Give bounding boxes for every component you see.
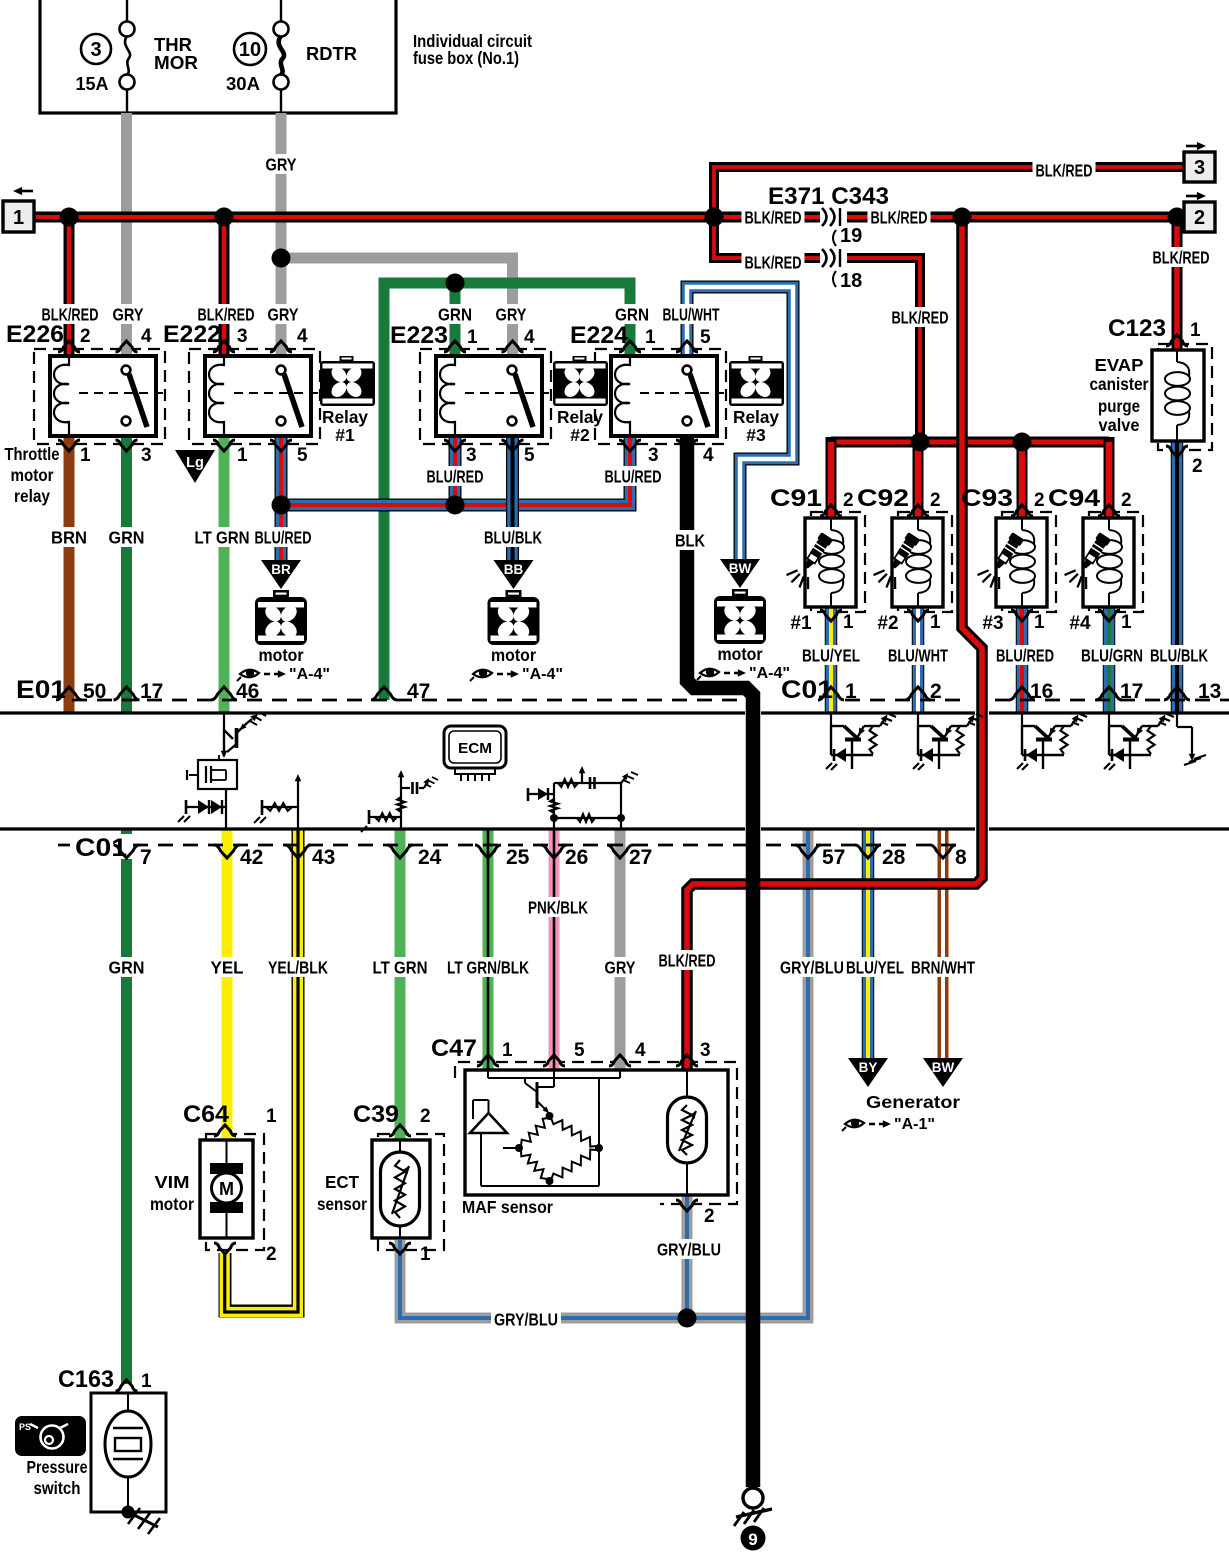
label GRY vertical — [263, 154, 300, 174]
svg-text:1: 1 — [237, 445, 248, 466]
svg-text:BLK/RED: BLK/RED — [198, 304, 255, 324]
ECM mosfet box — [198, 760, 237, 789]
ground dot pressure switch — [122, 1506, 135, 1519]
label GRY above E222 — [265, 304, 302, 324]
ECM injector driver at C01-1 — [830, 713, 832, 726]
injector C94 dashed outline — [1089, 512, 1143, 612]
svg-text:GRY: GRY — [496, 304, 527, 324]
chevron C01-42 bottom — [214, 845, 240, 858]
triangle BR — [261, 560, 301, 589]
svg-text:3: 3 — [237, 326, 248, 347]
chevron E223 pin5 — [502, 440, 524, 451]
junction bus at C123 — [1168, 208, 1187, 227]
svg-text:1: 1 — [420, 1244, 431, 1265]
svg-text:2: 2 — [80, 326, 91, 347]
chevron C91 pin2 — [820, 505, 842, 516]
chevron E224 pin1 — [619, 341, 641, 352]
svg-text:1: 1 — [645, 327, 656, 348]
svg-text:3: 3 — [141, 445, 152, 466]
svg-text:2: 2 — [1034, 490, 1045, 511]
wire LT GRN C01-24 to C39 pin2 — [395, 829, 406, 1140]
svg-text:BLU/YEL: BLU/YEL — [846, 957, 904, 977]
triangle BY generator — [848, 1058, 888, 1087]
svg-text:E222: E222 — [163, 321, 221, 348]
chevron C163 pin1 — [116, 1380, 138, 1391]
wire GRN long vertical to E01-47 — [384, 283, 630, 700]
svg-text:"A-4": "A-4" — [289, 666, 330, 683]
svg-text:15A: 15A — [76, 74, 109, 94]
junction rail at C93 — [1013, 433, 1032, 452]
svg-text:7: 7 — [140, 846, 152, 869]
svg-text:4: 4 — [141, 326, 152, 347]
chevron C01-25 bottom — [475, 845, 501, 858]
svg-text:24: 24 — [418, 846, 442, 869]
svg-text:3: 3 — [466, 445, 477, 466]
wire BLK E224 pin4 to ground 9 — [687, 437, 753, 1487]
wire LT GRN/BLK C01-25 to C47 pin1 — [483, 829, 494, 1070]
svg-text:EVAP: EVAP — [1095, 355, 1144, 375]
pressure switch icon — [15, 1416, 86, 1456]
svg-text:C92: C92 — [857, 485, 909, 512]
wire GRY fuse3 to E226 pin4 — [121, 113, 132, 356]
chevron E222 pin3 — [213, 341, 235, 352]
svg-text:BLK/RED: BLK/RED — [892, 307, 949, 327]
label GRY lower — [602, 957, 639, 977]
svg-text:BB: BB — [504, 562, 524, 577]
chevron C39 pin2 — [389, 1125, 411, 1136]
ECM injector driver at C01-17 — [1108, 713, 1110, 726]
chevron C93 pin1 — [1011, 610, 1033, 621]
label BLU/WHT — [885, 645, 951, 665]
svg-text:17: 17 — [140, 680, 163, 703]
svg-text:2: 2 — [266, 1244, 277, 1265]
chevron E224 pin3 — [619, 440, 641, 451]
label BLU/YEL 28 — [843, 957, 907, 977]
chevron C123 pin1 — [1166, 335, 1188, 346]
svg-text:BLU/RED: BLU/RED — [605, 466, 662, 486]
svg-text:motor: motor — [491, 645, 536, 665]
chevron C01-13 — [1164, 687, 1190, 700]
chevron C01-7 bottom — [114, 845, 140, 858]
label BLK/RED bus right of 19 — [868, 207, 931, 227]
svg-text:LT GRN/BLK: LT GRN/BLK — [447, 957, 529, 977]
svg-text:5: 5 — [700, 327, 711, 348]
ECM injector driver at C01-2 — [917, 713, 919, 726]
VIM motor C64 dashed outline — [206, 1134, 264, 1250]
junction bus at MAF feed — [953, 208, 972, 227]
svg-text:3: 3 — [648, 445, 659, 466]
chevron C01-1 — [818, 687, 844, 700]
chevron C47 pin4 — [609, 1055, 631, 1066]
chevron C64 pin2 — [214, 1243, 236, 1254]
junction BLU/RED at E223 — [446, 496, 465, 515]
svg-text:RDTR: RDTR — [306, 44, 357, 64]
junction bus at E222 — [215, 208, 234, 227]
svg-text:1: 1 — [1034, 612, 1045, 633]
svg-text:BW: BW — [729, 561, 752, 576]
EVAP canister purge valve C123 box — [1152, 350, 1204, 441]
svg-text:motor: motor — [150, 1194, 194, 1214]
svg-text:2: 2 — [704, 1206, 715, 1227]
relay E224 dashed outline — [595, 349, 726, 444]
svg-text:16: 16 — [1030, 680, 1053, 703]
junction rail at C92 — [911, 433, 930, 452]
svg-text:Generator: Generator — [866, 1092, 960, 1112]
svg-text:1: 1 — [1121, 612, 1132, 633]
svg-text:42: 42 — [240, 846, 263, 869]
label BLK/RED top line — [1033, 160, 1096, 180]
wire BLK/RED C92 pin2 drop — [913, 442, 924, 518]
chevron C01-2 — [905, 687, 931, 700]
svg-text:Relay: Relay — [557, 407, 603, 427]
wire YEL/BLK C01-43 to C64 pin2 — [225, 829, 298, 1311]
wire BLU/RED C93 pin1 — [1016, 607, 1029, 712]
svg-text:ECM: ECM — [458, 740, 492, 757]
svg-text:26: 26 — [565, 846, 588, 869]
junction GRN — [446, 274, 465, 293]
svg-text:2: 2 — [1121, 490, 1132, 511]
svg-text:MAF sensor: MAF sensor — [462, 1197, 553, 1217]
svg-text:19: 19 — [840, 225, 862, 247]
label BLU/YEL — [799, 645, 863, 665]
svg-text:28: 28 — [882, 846, 906, 869]
svg-text:THR: THR — [154, 35, 192, 55]
chevron C01-28 bottom — [855, 845, 881, 858]
label YEL — [208, 957, 247, 977]
ECM symbol at pin43 — [297, 779, 299, 828]
wire BLU/RED E222 pin5 drop — [275, 437, 288, 560]
svg-text:"A-1": "A-1" — [894, 1116, 935, 1133]
svg-text:fuse box (No.1): fuse box (No.1) — [413, 48, 519, 68]
wire BLU/YEL C01-28 to generator — [862, 829, 875, 1058]
wire BLU/GRN C94 pin1 — [1103, 607, 1116, 712]
svg-text:C01: C01 — [781, 676, 833, 704]
chevron C47 pin5 — [543, 1055, 565, 1066]
chevron C92 pin2 — [907, 505, 929, 516]
label GRY/BLU on bus — [491, 1309, 561, 1329]
svg-text:27: 27 — [629, 846, 652, 869]
svg-text:YEL/BLK: YEL/BLK — [268, 957, 328, 977]
svg-text:2: 2 — [843, 490, 854, 511]
label GRY/BLU 57 — [777, 957, 847, 977]
label GRN above E223 — [435, 304, 475, 324]
svg-text:3: 3 — [90, 39, 101, 61]
ECM top border — [0, 711, 745, 714]
fuse 10 (30A) symbol — [280, 0, 282, 22]
label BLK/RED lower — [656, 950, 719, 970]
svg-text:relay: relay — [14, 486, 50, 506]
relay E222 — [205, 356, 311, 436]
svg-text:43: 43 — [312, 846, 335, 869]
wire BLK/RED E222 pin3 drop — [219, 217, 230, 356]
wire BLU/BLK C123 to C01-13 — [1171, 441, 1184, 712]
chevron E223 pin3 — [444, 440, 466, 451]
label BLU/RED under E224 — [602, 466, 665, 486]
junction bus at E371 — [705, 208, 724, 227]
svg-text:GRY: GRY — [605, 957, 636, 977]
label BLU/GRN — [1078, 645, 1146, 665]
svg-text:C91: C91 — [770, 485, 822, 512]
svg-text:GRN: GRN — [109, 527, 145, 547]
svg-text:2: 2 — [420, 1106, 431, 1127]
svg-text:57: 57 — [822, 846, 845, 869]
svg-text:BLK: BLK — [675, 530, 705, 550]
offpage box 1 — [3, 201, 34, 232]
chevron C64 pin1 — [214, 1125, 236, 1136]
svg-text:BLK/RED: BLK/RED — [1153, 247, 1210, 267]
label BLU/RED injector — [993, 645, 1057, 665]
fuse box: Individual circuit fuse box (No.1) — [40, 0, 396, 113]
connector row C01 top dashed — [845, 699, 970, 702]
injector C92 dashed outline — [898, 512, 952, 612]
svg-text:GRN: GRN — [615, 304, 649, 324]
label GRN above E224 — [612, 304, 652, 324]
connector C343-18 symbol — [820, 247, 847, 269]
junction BLU/RED at E222 — [272, 496, 291, 515]
svg-text:1: 1 — [930, 612, 941, 633]
wire BLU/WHT C92 pin1 — [912, 607, 925, 712]
svg-text:GRN: GRN — [109, 957, 145, 977]
label BLU/RED under E223 — [424, 466, 487, 486]
wire BLU/RED horizontal E222-E224 — [281, 437, 630, 505]
fuse 10 circled number — [234, 33, 266, 65]
label BRN/WHT — [908, 957, 978, 977]
label C01 bottom — [70, 834, 132, 859]
svg-text:ECT: ECT — [325, 1172, 359, 1192]
injector C93 component — [996, 518, 1047, 607]
chevron C94 pin2 — [1098, 505, 1120, 516]
svg-text:PS: PS — [19, 1422, 31, 1432]
svg-text:C94: C94 — [1048, 485, 1101, 512]
chevron E222 pin4 — [270, 341, 292, 352]
wire GRY/BLU C47 pin2 drop — [682, 1195, 693, 1318]
svg-text:GRN: GRN — [438, 304, 472, 324]
label BLU/RED under E222 — [252, 527, 315, 547]
svg-text:C64: C64 — [183, 1101, 230, 1128]
label BLK — [672, 530, 708, 550]
svg-text:M: M — [219, 1179, 234, 1199]
wire LT GRN E222 pin1 to E01-46 — [219, 436, 230, 712]
label GRY above E226 — [110, 304, 147, 324]
offpage box 2 — [1184, 202, 1215, 232]
svg-text:#3: #3 — [982, 613, 1003, 634]
ECM injector driver at C01-16 — [1021, 713, 1023, 726]
chevron C01-8 bottom — [930, 845, 956, 858]
wire BLU/RED E223 pin3 drop — [449, 437, 462, 505]
wire GRN E226 pin3 to E01-17 — [121, 436, 132, 712]
ECM network pins 26-27 — [553, 783, 555, 828]
svg-text:"A-4": "A-4" — [522, 666, 563, 683]
svg-text:GRY/BLU: GRY/BLU — [657, 1239, 721, 1259]
svg-text:Lg: Lg — [186, 455, 204, 471]
chevron E01-46 — [211, 687, 237, 700]
svg-text:GRY: GRY — [113, 304, 144, 324]
svg-text:LT GRN: LT GRN — [373, 957, 428, 977]
svg-text:Pressure: Pressure — [27, 1457, 88, 1477]
ECM bottom border — [0, 827, 745, 830]
wire BLU/BLK E223 pin5 to motor BB — [506, 437, 519, 560]
relay E224 — [611, 356, 717, 436]
motor icon 3 — [732, 589, 748, 597]
svg-text:switch: switch — [34, 1478, 81, 1498]
svg-text:1: 1 — [80, 445, 91, 466]
svg-text:BLK/RED: BLK/RED — [745, 252, 802, 272]
wire GRY/BLU C01-57 bus to C39 pin1 — [400, 829, 808, 1318]
svg-text:BLU/BLK: BLU/BLK — [484, 527, 542, 547]
svg-text:1: 1 — [266, 1106, 277, 1127]
chevron C94 pin1 — [1098, 610, 1120, 621]
svg-text:C163: C163 — [58, 1366, 114, 1393]
svg-text:PNK/BLK: PNK/BLK — [528, 897, 588, 917]
offpage arrow 1 — [20, 190, 33, 193]
svg-text:MOR: MOR — [154, 53, 198, 73]
svg-text:C47: C47 — [431, 1035, 477, 1062]
fuse 3 (15A) symbol — [126, 0, 128, 22]
svg-text:purge: purge — [1098, 396, 1140, 416]
svg-text:2: 2 — [1194, 207, 1205, 229]
svg-text:LT GRN: LT GRN — [195, 527, 250, 547]
svg-text:#4: #4 — [1069, 613, 1091, 634]
wire GRN C01-7 to C163 — [121, 829, 132, 1384]
svg-text:13: 13 — [1198, 680, 1221, 703]
injector C91 dashed outline — [811, 512, 865, 612]
triangle BW — [720, 559, 760, 588]
fuse 3 circled number — [81, 34, 111, 64]
chassis ground pressure switch — [128, 1512, 158, 1527]
chevron E226 pin1 — [58, 440, 80, 451]
svg-text:4: 4 — [635, 1040, 646, 1061]
triangle BW generator — [923, 1058, 963, 1087]
svg-text:motor: motor — [259, 645, 304, 665]
svg-text:VIM: VIM — [155, 1172, 190, 1192]
relay #2 icon — [573, 356, 587, 362]
svg-text:E226: E226 — [6, 321, 64, 348]
svg-text:1: 1 — [141, 1371, 152, 1392]
svg-text:C93: C93 — [961, 485, 1013, 512]
label BLK/RED branch 18 — [742, 252, 805, 272]
wire BLK/RED C93 pin2 drop — [1017, 442, 1028, 518]
wire GRY C01-27 to C47 pin4 — [615, 829, 626, 1070]
svg-text:E223: E223 — [390, 322, 448, 349]
chevron E222 pin5 — [270, 440, 292, 451]
svg-text:valve: valve — [1099, 415, 1140, 435]
chevron E224 pin5 — [676, 341, 698, 352]
chevron C47 pin3 — [676, 1055, 698, 1066]
label GRN lower — [106, 957, 148, 977]
motor icon 2 — [506, 590, 522, 598]
label LT GRN/BLK — [444, 957, 532, 977]
chevron E222 pin1 — [213, 440, 235, 451]
ECT sensor C39 dashed outline — [378, 1134, 444, 1250]
ground number 9 — [741, 1526, 766, 1551]
relay #3 icon — [749, 356, 763, 362]
svg-text:1: 1 — [502, 1040, 513, 1061]
connector row C01 bottom dashed — [58, 844, 748, 847]
svg-text:BRN/WHT: BRN/WHT — [911, 957, 975, 977]
wire BLK/RED top line to box3 and branch 18 to injector rail — [714, 167, 1184, 442]
label BLU/BLK under E223 — [481, 527, 545, 547]
svg-text:30A: 30A — [226, 74, 260, 94]
chevron C91 pin1 — [820, 610, 842, 621]
wire BLK/RED main bus — [34, 212, 1184, 223]
svg-text:GRY/BLU: GRY/BLU — [494, 1309, 558, 1329]
chevron E01-47 — [371, 687, 397, 700]
chevron E224 pin4 — [676, 440, 698, 451]
svg-text:C123: C123 — [1108, 315, 1166, 342]
svg-text:BLU/GRN: BLU/GRN — [1081, 645, 1143, 665]
offpage arrow 3 — [1186, 145, 1199, 148]
svg-text:GRY/BLU: GRY/BLU — [780, 957, 844, 977]
chevron C01-17 — [1096, 687, 1122, 700]
svg-text:#1: #1 — [335, 425, 355, 445]
ground symbol 9 — [743, 1488, 763, 1508]
label BLK/RED above E226 — [39, 304, 102, 324]
chevron C123 pin2 — [1166, 446, 1188, 457]
ECM symbol at C01-13 — [1176, 714, 1178, 727]
svg-text:4: 4 — [703, 445, 714, 466]
chevron E01-17 — [114, 687, 140, 700]
chevron E223 pin1 — [444, 341, 466, 352]
svg-text:1: 1 — [467, 327, 478, 348]
svg-text:Relay: Relay — [733, 407, 779, 427]
wire BLK/RED bus to MAF pin3 — [687, 217, 982, 1070]
relay E226 (throttle motor relay) — [50, 356, 156, 436]
offpage arrow 2 — [1186, 195, 1199, 198]
svg-text:1: 1 — [843, 612, 854, 633]
EVAP valve C123 dashed outline — [1158, 344, 1212, 450]
svg-text:BLK/RED: BLK/RED — [745, 207, 802, 227]
motor icon 1 — [273, 590, 289, 598]
svg-text:GRY: GRY — [268, 304, 299, 324]
chevron C01-24 bottom — [387, 845, 413, 858]
eye ref A-4 motor2 — [473, 670, 492, 678]
wire BLK/RED E226 pin2 drop — [64, 217, 75, 356]
svg-text:#2: #2 — [877, 613, 898, 634]
pressure switch C163 box — [91, 1393, 166, 1512]
chevron E223 pin4 — [502, 341, 524, 352]
svg-text:4: 4 — [524, 327, 535, 348]
ECM chip icon — [444, 726, 506, 768]
svg-text:Throttle: Throttle — [5, 444, 60, 464]
svg-text:2: 2 — [1192, 456, 1203, 477]
svg-text:BLU/RED: BLU/RED — [255, 527, 312, 547]
label BLK/RED bus left of 19 — [742, 207, 805, 227]
svg-text:C39: C39 — [353, 1101, 399, 1128]
relay E223 dashed outline — [420, 349, 551, 444]
injector C93 dashed outline — [1002, 512, 1056, 612]
svg-text:47: 47 — [407, 680, 430, 703]
svg-text:50: 50 — [83, 680, 106, 703]
svg-text:5: 5 — [524, 445, 535, 466]
svg-text:46: 46 — [236, 680, 259, 703]
svg-text:sensor: sensor — [317, 1194, 367, 1214]
injector C92 component — [892, 518, 943, 607]
svg-text:BLU/WHT: BLU/WHT — [888, 645, 948, 665]
chevron E226 pin3 — [116, 440, 138, 451]
chevron E226 pin4 — [116, 341, 138, 352]
svg-text:BLU/RED: BLU/RED — [996, 645, 1054, 665]
chevron C93 pin2 — [1011, 505, 1033, 516]
wire BLU/YEL C91 pin1 — [825, 607, 838, 712]
svg-text:1: 1 — [13, 207, 24, 229]
svg-text:BLK/RED: BLK/RED — [659, 950, 716, 970]
relay E226 dashed outline — [34, 349, 165, 444]
label YEL/BLK — [265, 957, 331, 977]
svg-text:GRY: GRY — [266, 154, 297, 174]
svg-text:BLU/RED: BLU/RED — [427, 466, 484, 486]
chevron C01-26 bottom — [541, 845, 567, 858]
ECM diode pair at pin42 — [225, 789, 227, 807]
